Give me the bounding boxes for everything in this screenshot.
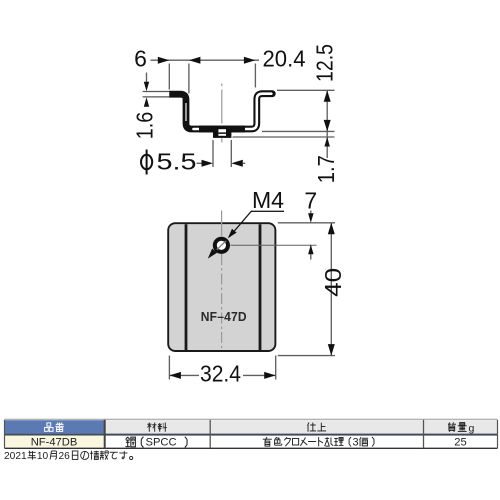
svg-text:M4: M4 xyxy=(252,187,284,213)
svg-text:3: 3 xyxy=(353,436,359,448)
svg-text:NF–47D: NF–47D xyxy=(201,309,247,324)
svg-text:2021: 2021 xyxy=(4,451,27,462)
svg-text:20.4: 20.4 xyxy=(263,46,306,72)
svg-text:40: 40 xyxy=(320,268,346,297)
svg-text:6: 6 xyxy=(134,46,147,72)
svg-text:SPCC: SPCC xyxy=(146,436,177,448)
svg-text:10: 10 xyxy=(37,451,49,462)
svg-text:1.6: 1.6 xyxy=(132,112,158,140)
svg-text:g: g xyxy=(469,423,475,435)
svg-text:26: 26 xyxy=(59,451,71,462)
svg-text:1.7: 1.7 xyxy=(313,155,339,183)
svg-text:NF-47DB: NF-47DB xyxy=(31,436,78,448)
svg-text:7: 7 xyxy=(304,188,317,214)
svg-text:32.4: 32.4 xyxy=(200,360,241,386)
svg-text:5.5: 5.5 xyxy=(157,148,197,174)
svg-text:12.5: 12.5 xyxy=(312,44,338,82)
svg-text:25: 25 xyxy=(454,436,466,448)
